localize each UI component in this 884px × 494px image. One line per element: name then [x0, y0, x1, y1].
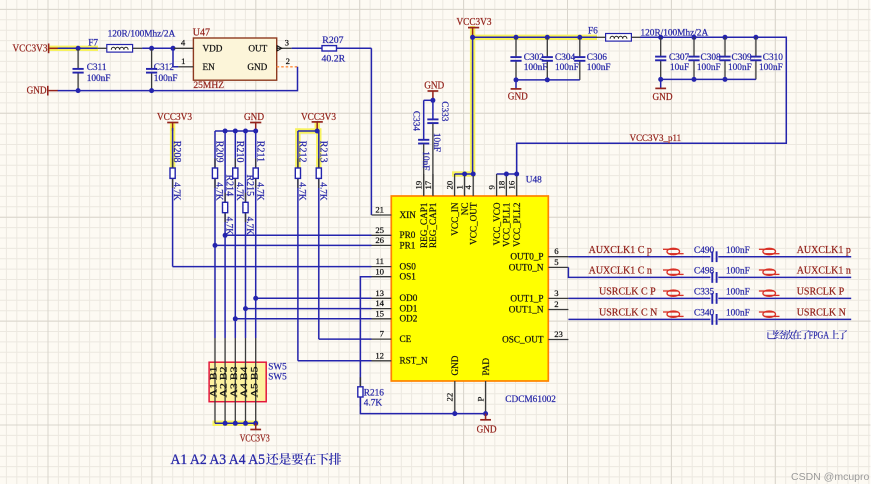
svg-text:10nF: 10nF [420, 151, 430, 170]
capacitor C312 [151, 49, 153, 68]
svg-text:C334: C334 [410, 111, 420, 131]
svg-text:C307: C307 [669, 53, 689, 63]
wire output row C335 [568, 297, 710, 299]
svg-text:6: 6 [554, 246, 559, 256]
resistor R215 [245, 131, 247, 338]
junction pin18 [504, 172, 509, 177]
svg-text:100nF: 100nF [555, 63, 579, 73]
resistor R211 [255, 131, 257, 338]
svg-text:4.7K: 4.7K [364, 399, 383, 409]
svg-text:2: 2 [286, 56, 290, 66]
junction c304 bottom [545, 77, 550, 82]
wire PR0 [225, 234, 371, 236]
svg-text:C309: C309 [732, 53, 752, 63]
switch SW5 [209, 362, 266, 402]
svg-text:GND: GND [27, 86, 47, 97]
capacitor C306 [579, 37, 581, 56]
junction tie 245.5 [243, 129, 248, 134]
svg-text:RST_N: RST_N [400, 356, 428, 366]
oscillator U47 body [193, 38, 276, 80]
U48 pin 20 VCC_IN [454, 174, 456, 196]
svg-text:12: 12 [375, 350, 384, 360]
capacitor C310 [755, 37, 757, 56]
svg-text:10: 10 [375, 266, 384, 276]
svg-text:120R/100Mhz/2A: 120R/100Mhz/2A [108, 29, 176, 39]
resistor R207 [292, 47, 322, 49]
svg-text:A5 B5: A5 B5 [249, 366, 259, 398]
svg-text:PR1: PR1 [400, 240, 416, 250]
capacitor C333 [432, 100, 434, 119]
svg-text:11: 11 [376, 256, 384, 266]
svg-text:C306: C306 [587, 53, 607, 63]
svg-text:4.7K: 4.7K [317, 182, 327, 201]
svg-text:17: 17 [423, 180, 433, 189]
resistor R213 [318, 131, 320, 339]
wire SW5 tie [215, 422, 256, 424]
resistor R208 [172, 128, 174, 267]
svg-text:4.7K: 4.7K [171, 182, 181, 201]
junction C308 [692, 35, 697, 40]
junction C306 [577, 35, 582, 40]
svg-text:C333: C333 [439, 101, 449, 121]
svg-text:VDD: VDD [203, 44, 223, 54]
wire output row C490 [568, 256, 710, 258]
wire R207 to XIN [370, 48, 372, 215]
wire EN tie [173, 48, 178, 67]
svg-text:R210: R210 [234, 141, 245, 163]
svg-text:100nF: 100nF [726, 288, 750, 298]
svg-text:5: 5 [554, 257, 558, 267]
U48 pin 19 REG_CAP1 [423, 174, 425, 196]
U48 pin 1 NC [464, 174, 466, 196]
svg-text:FPGA: FPGA [809, 330, 830, 341]
svg-text:100nF: 100nF [726, 309, 750, 319]
svg-text:20: 20 [445, 180, 455, 189]
svg-text:GND: GND [244, 112, 264, 123]
svg-text:C498: C498 [694, 267, 714, 277]
capacitor C335 [711, 293, 713, 304]
U48 pin 13 OD0 [372, 297, 392, 299]
junction pin4 [471, 172, 476, 177]
svg-text:OUT1_P: OUT1_P [510, 293, 543, 303]
svg-text:GND: GND [424, 80, 444, 91]
junction OD2-R210 [233, 316, 238, 321]
U48 pin 21 XIN [372, 214, 392, 216]
capacitor C498 [711, 272, 713, 283]
U47 pin 3 OUT [277, 47, 292, 49]
svg-text:U48: U48 [526, 175, 542, 185]
wire pins 9-18-16 tie [497, 173, 517, 175]
wire cap bottoms [516, 79, 580, 81]
svg-text:AUXCLK1 n: AUXCLK1 n [797, 266, 851, 277]
svg-text:CDCM61002: CDCM61002 [505, 395, 556, 405]
junction top [470, 35, 475, 40]
svg-text:USRCLK N: USRCLK N [797, 308, 846, 319]
junction tie 255.7 [253, 129, 258, 134]
wire VCC3V3 to F7 [58, 47, 98, 49]
svg-text:U47: U47 [193, 27, 210, 38]
svg-text:23: 23 [554, 329, 563, 339]
junction OD1-R215 [243, 306, 248, 311]
svg-text:GND: GND [508, 91, 528, 102]
wire gnd tie [215, 130, 256, 132]
svg-text:SW5: SW5 [268, 371, 287, 381]
svg-text:VCC3V3: VCC3V3 [13, 43, 48, 54]
svg-text:REG_CAP1: REG_CAP1 [428, 202, 438, 248]
svg-text:OD1: OD1 [400, 304, 418, 314]
capacitor C334 [423, 100, 425, 139]
svg-text:OUT1_N: OUT1_N [509, 304, 544, 314]
wire RST_N from R212 [298, 360, 372, 362]
svg-text:GND: GND [247, 62, 267, 72]
junction PAD [483, 411, 488, 416]
svg-text:16: 16 [507, 180, 517, 189]
svg-text:A4 B4: A4 B4 [239, 366, 249, 398]
diff pair symbol right C340 [763, 311, 776, 317]
diff pair symbol left C335 [667, 290, 680, 296]
diff pair symbol left C490 [667, 248, 680, 254]
wire F6 to caps rail [517, 37, 787, 174]
svg-text:9: 9 [487, 185, 497, 189]
svg-text:100nF: 100nF [759, 63, 783, 73]
svg-text:USRCLK C P: USRCLK C P [599, 287, 656, 298]
power port GND bottom [485, 414, 487, 420]
svg-text:4: 4 [463, 185, 473, 190]
capacitor C302 [515, 37, 517, 56]
resistor R209 [214, 131, 216, 338]
power port GND right [660, 79, 662, 88]
U48 pin 14 OD1 [372, 308, 392, 310]
capacitor C307 [660, 37, 662, 56]
svg-text:25: 25 [375, 225, 384, 235]
wire output row C498 [568, 267, 710, 277]
svg-text:AUXCLK1 C p: AUXCLK1 C p [589, 245, 652, 256]
ferrite bead F6 [606, 34, 632, 42]
svg-text:OSC_OUT: OSC_OUT [502, 334, 544, 344]
svg-text:EN: EN [203, 62, 216, 72]
power port VCC3V3 sw5 [255, 423, 257, 429]
junction pin22 [452, 411, 457, 416]
junction c333 [430, 98, 435, 103]
wire F7 to U47 VDD [142, 47, 174, 49]
wire OS1 to R216 [360, 277, 371, 387]
svg-text:4.7K: 4.7K [254, 182, 264, 201]
svg-text:USRCLK C N: USRCLK C N [599, 308, 657, 319]
svg-text:OUT: OUT [248, 44, 267, 54]
wire c333/c334 top [424, 99, 433, 101]
svg-text:USRCLK P: USRCLK P [797, 287, 845, 298]
capacitor C311 [77, 49, 79, 68]
svg-text:SW5: SW5 [268, 361, 287, 371]
svg-text:VCC_VCO: VCC_VCO [492, 202, 502, 245]
U48 pin 11 OS0 [372, 266, 392, 268]
diff pair symbol right C490 [763, 248, 776, 254]
annotation FPGA note [767, 330, 776, 339]
svg-text:R212: R212 [297, 141, 308, 163]
U48 pin 16 VCC_PLL2 [516, 174, 518, 196]
junction VDD/EN tie [171, 46, 176, 51]
svg-text:VCC3V3_p11: VCC3V3_p11 [630, 133, 682, 143]
capacitor C490 [711, 251, 713, 262]
svg-text:CE: CE [400, 334, 412, 344]
svg-text:100nF: 100nF [87, 74, 111, 84]
capacitor C304 [546, 37, 548, 56]
wire R216 to GND [360, 397, 485, 414]
svg-text:100nF: 100nF [726, 267, 750, 277]
svg-text:VCC_OUT: VCC_OUT [468, 202, 478, 245]
svg-text:100nF: 100nF [726, 246, 750, 256]
svg-text:OS1: OS1 [400, 272, 417, 282]
svg-text:C490: C490 [694, 246, 714, 256]
junction pin1 [462, 172, 467, 177]
junction SW5 235.3 [233, 421, 238, 426]
svg-text:AUXCLK1 p: AUXCLK1 p [797, 245, 851, 256]
svg-text:3: 3 [285, 38, 289, 48]
U48 pin 26 PR1 [372, 244, 392, 246]
svg-text:PR0: PR0 [400, 230, 416, 240]
capacitor C340 [711, 314, 713, 325]
svg-text:C335: C335 [694, 288, 714, 298]
U48 pin 18 VCC_PLL1 [505, 174, 507, 196]
svg-text:21: 21 [375, 205, 384, 215]
svg-text:R207: R207 [322, 35, 343, 46]
svg-text:7: 7 [380, 329, 385, 339]
svg-text:100nF: 100nF [524, 63, 548, 73]
svg-text:R209: R209 [214, 141, 225, 163]
svg-text:VCC3V3: VCC3V3 [240, 433, 270, 444]
svg-text:R211: R211 [254, 141, 265, 162]
junction PR0-R214 [223, 233, 228, 238]
junction at C311 [76, 46, 81, 51]
diff pair symbol right C498 [763, 269, 776, 275]
svg-text:F6: F6 [588, 26, 598, 36]
resistor R216 [359, 377, 361, 387]
svg-text:A2 B2: A2 B2 [219, 366, 229, 398]
svg-text:A3 B3: A3 B3 [229, 366, 239, 398]
svg-text:VCC3V3: VCC3V3 [157, 112, 192, 123]
svg-text:OD2: OD2 [400, 314, 418, 324]
U47 pin 1 EN [178, 66, 193, 68]
svg-text:VCC3V3: VCC3V3 [457, 17, 492, 28]
svg-text:C304: C304 [555, 53, 575, 63]
wire OD2 [235, 318, 371, 320]
U48 pin 6 OUT0_P [548, 256, 568, 258]
svg-text:C340: C340 [694, 309, 714, 319]
wire GND rail [58, 67, 298, 91]
svg-text:13: 13 [375, 288, 384, 298]
U48 pin 12 RST_N [372, 360, 392, 362]
U48 pin 9 VCC_VCO [496, 174, 498, 196]
junction C307 [658, 35, 663, 40]
IC U48 body [391, 196, 548, 381]
svg-text:F7: F7 [88, 38, 98, 48]
svg-text:C311: C311 [87, 63, 107, 73]
U48 pin 25 PR0 [372, 234, 392, 236]
svg-text:10uF: 10uF [670, 63, 689, 73]
capacitor C308 [693, 37, 695, 56]
junction vcc tie2 [315, 129, 320, 134]
U48 pin 2 OUT1_N [548, 309, 568, 311]
svg-text:100nF: 100nF [587, 63, 611, 73]
svg-text:4.7K: 4.7K [214, 182, 224, 201]
resistor R210 [234, 131, 236, 338]
wire CE from R213 [319, 338, 372, 340]
svg-text:GND: GND [477, 425, 497, 436]
svg-text:C308: C308 [701, 53, 721, 63]
svg-text:C310: C310 [763, 53, 783, 63]
wire output row C340 [568, 318, 710, 320]
U48 pin 4 VCC_OUT [472, 174, 474, 196]
svg-text:C312: C312 [154, 63, 174, 73]
wire VCC3V3 top rail [473, 36, 597, 38]
junction GND C312 [149, 88, 154, 93]
svg-text:22: 22 [445, 393, 455, 402]
svg-text:4.7K: 4.7K [234, 182, 244, 201]
U48 pin 3 OUT1_P [548, 297, 568, 299]
junction c308 bottom [692, 77, 697, 82]
svg-text:3: 3 [554, 288, 558, 298]
junction at C312 [149, 46, 154, 51]
svg-text:P: P [475, 397, 485, 402]
diff pair symbol left C498 [667, 269, 680, 275]
junction C310 [753, 35, 758, 40]
junction PR1-R209 [213, 243, 218, 248]
wire pins 20-1-4 tie [455, 173, 474, 175]
power port GND c333 [428, 90, 439, 92]
svg-text:25MHZ: 25MHZ [193, 81, 224, 91]
U47 pin 4 VDD [174, 47, 193, 49]
svg-text:26: 26 [375, 235, 384, 245]
svg-text:100nF: 100nF [728, 63, 752, 73]
svg-text:VCC_PLL2: VCC_PLL2 [512, 202, 522, 247]
junction SW5 245.5 [243, 421, 248, 426]
wire OD1 [246, 308, 372, 310]
svg-text:4.7K: 4.7K [244, 217, 254, 236]
junction c309 bottom [723, 77, 728, 82]
U48 pin 15 OD2 [372, 318, 392, 320]
svg-text:1: 1 [181, 56, 185, 66]
svg-text:XIN: XIN [400, 210, 417, 220]
wire caps2 bottoms [661, 78, 756, 80]
svg-text:100nF: 100nF [697, 63, 721, 73]
power port GND mid [515, 80, 517, 89]
svg-text:CSDN @mcupro: CSDN @mcupro [791, 471, 870, 483]
svg-text:R208: R208 [171, 141, 182, 163]
U47 pin 2 GND no-ERC [277, 66, 298, 68]
junction c302 bottom [514, 77, 519, 82]
svg-text:OS0: OS0 [400, 262, 417, 272]
svg-text:VCC_PLL1: VCC_PLL1 [502, 202, 512, 247]
junction tie 225.1 [223, 129, 228, 134]
diff pair symbol left C340 [667, 311, 680, 317]
junction C309 [723, 35, 728, 40]
U48 pin 17 REG_CAP1 [432, 174, 434, 196]
U48 pin 22 GND [454, 381, 456, 414]
svg-text:4: 4 [181, 38, 186, 48]
junction C304 [545, 35, 550, 40]
U48 pin 10 OS1 [372, 276, 392, 278]
svg-text:4.7K: 4.7K [224, 217, 234, 236]
junction tie 235.3 [233, 129, 238, 134]
svg-text:14: 14 [375, 298, 384, 308]
svg-text:VCC_IN: VCC_IN [450, 202, 460, 236]
svg-text:R216: R216 [364, 389, 384, 399]
svg-text:OUT0_P: OUT0_P [510, 252, 543, 262]
diff pair symbol right C335 [763, 290, 776, 296]
svg-text:100nF: 100nF [154, 74, 178, 84]
junction SW5 225.1 [223, 421, 228, 426]
svg-text:A1 A2 A3 A4 A5: A1 A2 A3 A4 A5 [171, 452, 266, 468]
U48 pin 5 OUT0_N [548, 266, 568, 268]
svg-text:2: 2 [554, 299, 558, 309]
U48 pin P PAD [485, 381, 487, 414]
wire PR1 [215, 244, 372, 246]
resistor R212 [297, 131, 299, 361]
junction SW5 255.7 [253, 421, 258, 426]
yellow highlight on VCC3V3 net [49, 46, 98, 51]
wire vcc tie2 [298, 130, 319, 132]
wire VCC3V3 down to U48 [472, 37, 474, 174]
resistor R214 [224, 131, 226, 338]
svg-text:GND: GND [653, 92, 673, 103]
U48 pin 23 OSC_OUT [548, 339, 568, 341]
svg-text:18: 18 [496, 180, 506, 189]
wire OS0 from R208 [173, 266, 372, 268]
svg-text:C302: C302 [524, 53, 544, 63]
svg-text:OD0: OD0 [400, 293, 418, 303]
svg-text:10nF: 10nF [431, 133, 441, 152]
junction GND C311 [76, 88, 81, 93]
junction OD0-R211 [253, 296, 258, 301]
svg-text:15: 15 [375, 308, 384, 318]
svg-text:A1 B1: A1 B1 [209, 366, 219, 398]
U48 pin 7 CE [372, 338, 392, 340]
junction C302 [514, 35, 519, 40]
svg-text:OUT0_N: OUT0_N [509, 262, 544, 272]
svg-text:40.2R: 40.2R [322, 53, 346, 64]
svg-text:AUXCLK1 C n: AUXCLK1 C n [589, 266, 652, 277]
svg-text:GND: GND [450, 355, 460, 375]
svg-text:R213: R213 [317, 141, 328, 163]
junction pin16 [514, 172, 519, 177]
svg-text:PAD: PAD [481, 358, 491, 376]
junction c307 bottom [658, 77, 663, 82]
wire OD0 [256, 297, 372, 299]
svg-text:4.7K: 4.7K [297, 182, 307, 201]
ferrite bead F7 [107, 45, 133, 53]
capacitor C309 [724, 37, 726, 56]
